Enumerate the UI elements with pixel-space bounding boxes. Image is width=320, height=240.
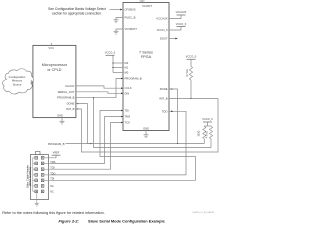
svg-text:PROGRAM_B: PROGRAM_B — [57, 96, 74, 100]
svg-text:VCC: VCC — [49, 46, 55, 50]
svg-text:DOUT: DOUT — [160, 37, 168, 41]
svg-text:NC: NC — [50, 190, 54, 193]
svg-text:CFGBVS: CFGBVS — [125, 8, 136, 12]
svg-text:PROGRAM_B: PROGRAM_B — [125, 77, 142, 81]
svg-text:INIT_B: INIT_B — [66, 107, 75, 111]
svg-text:VCCO_0: VCCO_0 — [202, 117, 213, 121]
svg-text:CLOCK: CLOCK — [65, 84, 74, 88]
svg-text:VCCO_0: VCCO_0 — [176, 22, 187, 26]
svg-text:NC: NC — [50, 185, 54, 188]
svg-text:DONE: DONE — [160, 87, 168, 91]
svg-text:Figure 2-2:: Figure 2-2: — [59, 218, 80, 223]
svg-text:DIN: DIN — [125, 91, 130, 95]
svg-text:TCK: TCK — [125, 121, 131, 125]
svg-text:M1: M1 — [125, 66, 129, 70]
svg-text:Slave Serial Mode Configuratio: Slave Serial Mode Configuration Example — [88, 218, 166, 223]
svg-text:FPGA: FPGA — [141, 55, 152, 59]
svg-text:M2: M2 — [125, 61, 129, 65]
svg-text:TMS: TMS — [125, 115, 131, 119]
svg-text:INIT_B: INIT_B — [159, 96, 168, 100]
svg-text:TDO: TDO — [162, 109, 168, 113]
svg-text:section for appropriate connec: section for appropriate connection. — [52, 12, 102, 16]
svg-text:PUDC_B: PUDC_B — [125, 16, 136, 20]
svg-text:PROGRAM_B: PROGRAM_B — [48, 142, 65, 146]
svg-text:VCCAUX: VCCAUX — [156, 17, 167, 21]
svg-text:Microprocessor: Microprocessor — [42, 63, 68, 67]
svg-text:VCCO_0: VCCO_0 — [186, 55, 197, 59]
svg-text:TDO: TDO — [50, 172, 55, 175]
svg-text:VCCBATT: VCCBATT — [125, 27, 138, 31]
svg-text:DONE: DONE — [67, 102, 75, 106]
svg-text:CCLK: CCLK — [125, 86, 132, 90]
svg-text:GND: GND — [57, 114, 63, 118]
svg-text:or CPLD: or CPLD — [47, 68, 61, 72]
svg-text:TDI: TDI — [125, 109, 130, 113]
svg-text:VREF: VREF — [53, 151, 60, 154]
svg-text:M0: M0 — [125, 71, 129, 75]
svg-text:UG470_c2_02_081111: UG470_c2_02_081111 — [192, 212, 215, 214]
svg-text:4.7 kΩ: 4.7 kΩ — [206, 131, 209, 138]
svg-text:7 Series: 7 Series — [139, 51, 153, 55]
svg-text:VCCO_0: VCCO_0 — [105, 51, 116, 55]
svg-text:Refer to the notes following t: Refer to the notes following this figure… — [2, 211, 105, 215]
svg-text:(JTAG Interface): (JTAG Interface) — [28, 167, 32, 186]
svg-text:Source: Source — [13, 82, 22, 86]
svg-text:VCCAUX: VCCAUX — [176, 10, 187, 14]
svg-text:GND: GND — [143, 126, 149, 130]
svg-text:330Ω: 330Ω — [198, 130, 201, 136]
svg-text:4.7 kΩ: 4.7 kΩ — [186, 69, 189, 76]
svg-text:VCCINT: VCCINT — [142, 4, 152, 8]
svg-text:VCCO_0: VCCO_0 — [157, 28, 168, 32]
svg-text:See Configuration Banks Voltag: See Configuration Banks Voltage Select — [48, 7, 106, 11]
svg-text:SERIAL_OUT: SERIAL_OUT — [58, 90, 75, 94]
